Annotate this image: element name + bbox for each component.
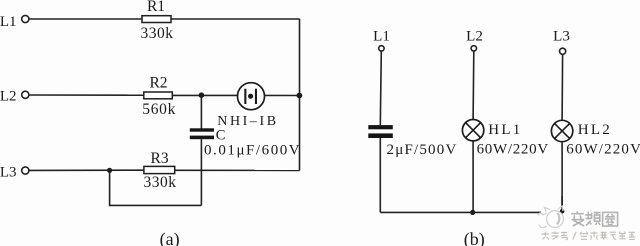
- watermark small text toutiaohao: [542, 232, 636, 240]
- wire junction to capacitor C: [200, 95, 202, 128]
- wire right bus: [299, 19, 301, 171]
- capacitor C plate top: [190, 128, 214, 131]
- svg-text:HL2: HL2: [578, 122, 612, 138]
- terminal L3 (b): [560, 48, 566, 54]
- svg-text:0.01μF/600V: 0.01μF/600V: [204, 143, 301, 159]
- svg-text:L3: L3: [0, 164, 17, 180]
- wire HL2 down: [561, 142, 563, 212]
- wire R1 to bus: [171, 18, 300, 20]
- svg-text:330k: 330k: [141, 25, 174, 42]
- svg-text:560k: 560k: [142, 101, 176, 118]
- watermark logo face: [538, 206, 563, 228]
- resistor R1: [142, 16, 171, 23]
- svg-text:R3: R3: [151, 150, 169, 167]
- wire capacitor down: [200, 139, 202, 205]
- svg-text:R1: R1: [147, 0, 165, 15]
- svg-text:HL1: HL1: [488, 122, 522, 138]
- junction dot HL2/bus end: [560, 209, 565, 214]
- terminal L2 (a): [22, 91, 29, 98]
- wire R3 to bus: [175, 169, 300, 171]
- svg-text:60W/220V: 60W/220V: [566, 141, 640, 157]
- junction node bus/lamp: [297, 93, 303, 99]
- wire HL2 stub over logo: [561, 196, 563, 210]
- neon lamp electrode right: [255, 89, 257, 104]
- wire bottom bus (b): [380, 211, 562, 213]
- wire L2 down to lamp HL1: [472, 51, 475, 119]
- svg-text:C: C: [216, 128, 226, 144]
- neon lamp dot: [248, 94, 253, 99]
- wire R2 to bus through lamp: [172, 94, 299, 96]
- lamp HL2 cross: [555, 123, 570, 138]
- wire L2 to R2: [29, 94, 144, 96]
- neon lamp electrode left: [244, 89, 246, 104]
- resistor R3: [144, 166, 175, 173]
- terminal L3 (a): [22, 167, 29, 174]
- svg-text:R2: R2: [149, 74, 167, 91]
- lamp HL2 circle: [551, 120, 572, 141]
- watermark text pin: [585, 212, 600, 226]
- capacitor C plate bottom: [190, 136, 214, 140]
- svg-text:L1: L1: [373, 28, 390, 44]
- watermark text bian: [571, 211, 584, 226]
- wire HL1 down: [472, 141, 474, 213]
- terminal L1 (a): [22, 15, 29, 22]
- watermark logo background blob: [539, 205, 573, 231]
- svg-text:60W/220V: 60W/220V: [477, 141, 549, 157]
- junction node R2/C: [199, 92, 205, 98]
- lamp HL1 cross: [466, 123, 481, 138]
- capacitor C2 plate bottom: [368, 133, 393, 138]
- svg-text:NHI–IB: NHI–IB: [217, 114, 278, 129]
- resistor R2: [144, 92, 173, 99]
- wire L1 to R1: [29, 18, 142, 20]
- svg-text:L2: L2: [466, 28, 483, 44]
- wire L3 to R3: [29, 169, 144, 171]
- terminal L2 (b): [471, 46, 476, 51]
- lamp HL1 circle: [462, 120, 483, 141]
- wire capacitor C2 down: [379, 138, 381, 212]
- svg-text:(a): (a): [160, 229, 180, 246]
- wire bottom return: [110, 170, 202, 205]
- capacitor C2 plate top: [368, 125, 393, 129]
- wire L1 down to capacitor: [380, 51, 381, 125]
- watermark text quan: [603, 212, 618, 226]
- svg-text:L1: L1: [0, 14, 17, 30]
- svg-text:2μF/500V: 2μF/500V: [387, 142, 458, 158]
- svg-text:L2: L2: [0, 88, 17, 104]
- junction node L3/C return: [107, 168, 112, 173]
- svg-text:(b): (b): [464, 229, 485, 246]
- svg-text:L3: L3: [553, 28, 570, 44]
- neon lamp U1 circle: [238, 83, 265, 110]
- svg-text:330k: 330k: [144, 174, 177, 191]
- junction node HL1/bus: [470, 210, 475, 215]
- wire L3 down to lamp HL2: [561, 55, 564, 121]
- terminal L1 (b): [379, 46, 384, 51]
